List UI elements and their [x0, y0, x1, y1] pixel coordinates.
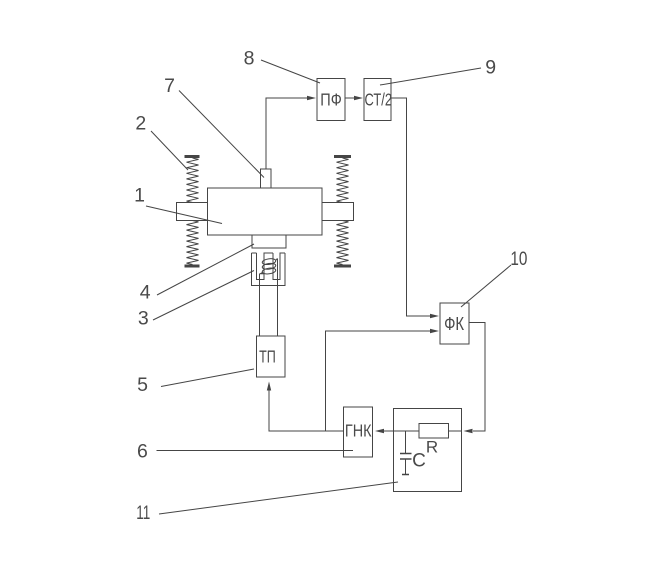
armature block 4: [252, 235, 286, 248]
label 2: [135, 113, 146, 135]
label 9 leader: [380, 68, 481, 85]
label 11: [136, 502, 150, 524]
ST/2 block 9: [364, 79, 392, 121]
label 6 leader: [157, 450, 354, 452]
label 10 leader: [461, 265, 511, 307]
label 7 leader: [179, 91, 264, 178]
svg-text:3: 3: [138, 308, 149, 330]
label 1: [134, 185, 145, 207]
main mass block 1: [208, 188, 323, 235]
label 4 leader: [157, 244, 254, 295]
svg-text:1: 1: [134, 185, 145, 207]
sensor rod 7: [261, 169, 272, 188]
svg-text:2: 2: [135, 113, 146, 135]
label 4: [140, 282, 151, 304]
label 6: [137, 441, 148, 463]
wire PF to ST/2 with arrow: [345, 96, 363, 100]
wire FK output to RC block with arrow: [464, 323, 486, 434]
label 11 leader: [159, 482, 398, 514]
label 1 leader: [146, 206, 222, 224]
label 5 leader: [161, 369, 254, 387]
wire leads from transducer to TP: [260, 259, 278, 337]
label 5: [137, 374, 148, 396]
svg-text:5: 5: [137, 374, 148, 396]
svg-text:ПФ: ПФ: [320, 90, 342, 110]
svg-text:11: 11: [136, 502, 150, 524]
svg-text:C: C: [412, 451, 426, 472]
label 3 leader: [153, 271, 254, 321]
label 8 leader: [261, 60, 320, 83]
label 8: [244, 48, 255, 70]
svg-text:ГНК: ГНК: [345, 421, 372, 441]
spring lower-right: [334, 221, 351, 267]
resistor R: [419, 424, 449, 457]
spring 2 upper-left: [185, 157, 200, 203]
wire ST/2 down to FK input1 with arrow: [391, 98, 439, 318]
right support tab: [322, 203, 354, 221]
coil of transducer 3: [260, 258, 277, 275]
wire RC block to GNK with arrow: [375, 429, 394, 433]
wire GNK to TP with arrow: [267, 382, 344, 432]
transducer 3 E-core: [252, 253, 286, 286]
RC block 11 box: [394, 409, 462, 492]
svg-text:9: 9: [485, 57, 496, 79]
svg-text:4: 4: [140, 282, 151, 304]
svg-text:ТП: ТП: [259, 346, 276, 366]
wire rod7 to PF with arrow: [266, 96, 316, 169]
svg-text:8: 8: [244, 48, 255, 70]
wire branch to FK input2 with arrow: [326, 329, 440, 431]
wire inside RC block: [394, 430, 462, 432]
label 2 leader: [151, 131, 188, 170]
FK block 10: [440, 303, 469, 344]
TP block 5: [257, 336, 286, 377]
svg-text:6: 6: [137, 441, 148, 463]
label 10: [510, 248, 527, 270]
svg-text:СТ/2: СТ/2: [365, 90, 393, 110]
left support tab: [177, 203, 208, 221]
label 7: [164, 75, 175, 97]
spring lower-left: [185, 221, 200, 267]
svg-text:10: 10: [510, 248, 527, 270]
label 3: [138, 308, 149, 330]
capacitor C: [400, 431, 426, 475]
svg-text:ФК: ФК: [444, 314, 464, 334]
svg-text:7: 7: [164, 75, 175, 97]
PF block 8: [317, 79, 345, 121]
spring upper-right: [334, 157, 351, 203]
svg-text:R: R: [426, 438, 438, 457]
GNK block 6: [344, 407, 373, 457]
label 9: [485, 57, 496, 79]
